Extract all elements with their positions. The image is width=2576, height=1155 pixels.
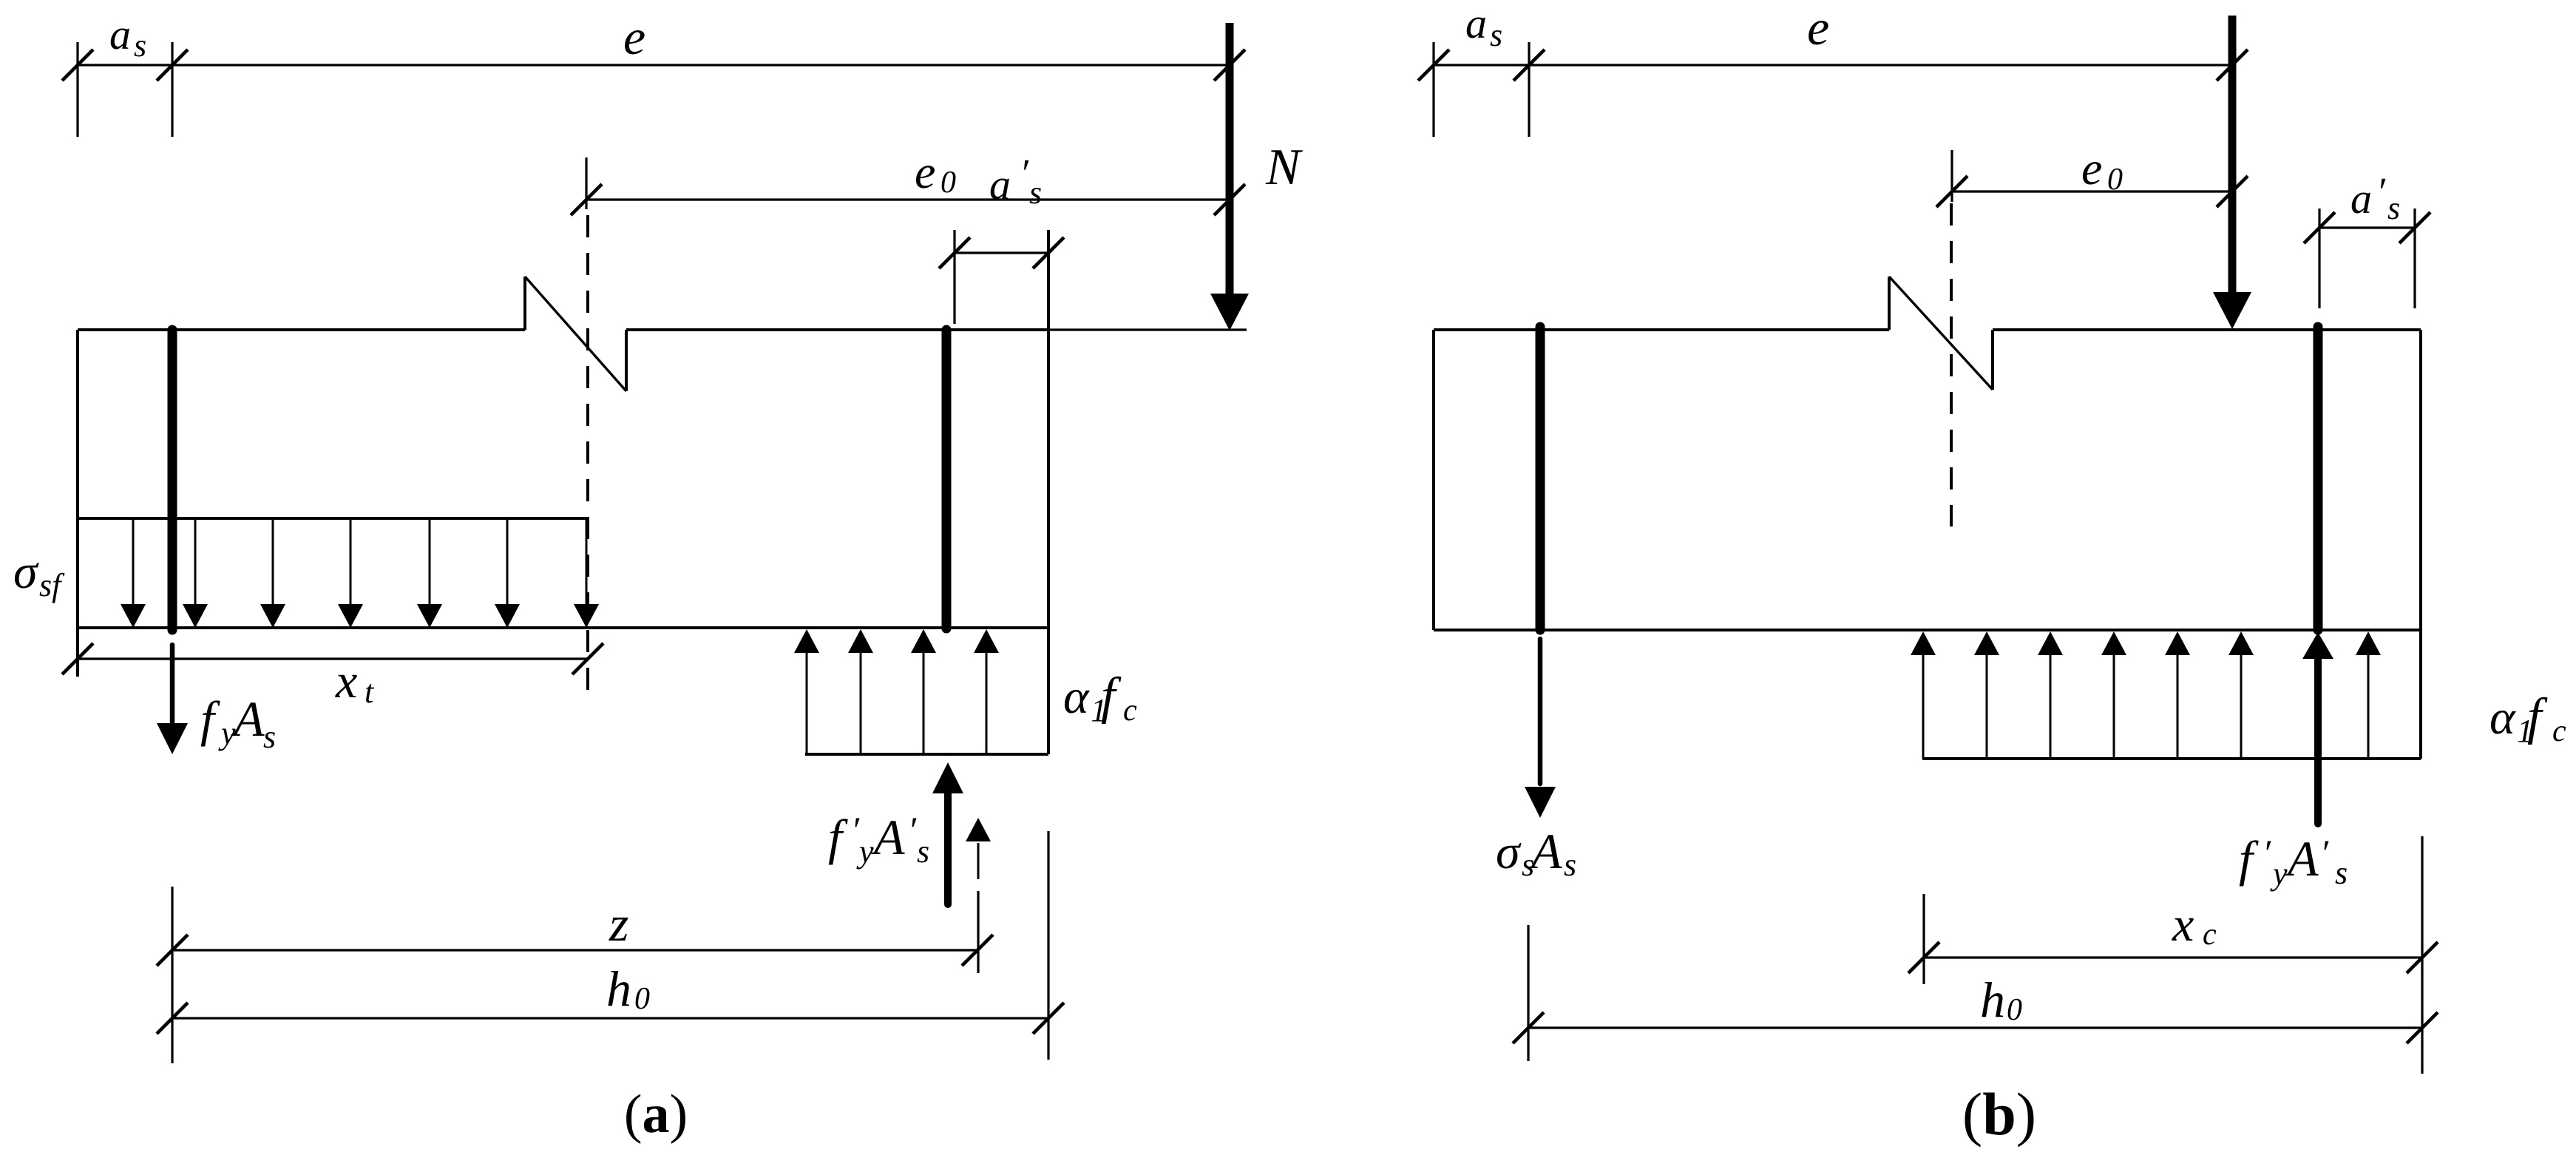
svg-text:z: z bbox=[609, 895, 628, 952]
svg-text:c: c bbox=[2552, 714, 2566, 748]
svg-text:σ: σ bbox=[1496, 825, 1522, 879]
svg-text:h: h bbox=[1980, 972, 2005, 1028]
svg-text:N: N bbox=[1265, 139, 1303, 196]
svg-text:s: s bbox=[1029, 175, 1042, 211]
svg-text:(b): (b) bbox=[1962, 1080, 2036, 1148]
svg-text:s: s bbox=[263, 719, 276, 755]
svg-text:s: s bbox=[1490, 17, 1502, 53]
svg-text:s: s bbox=[2335, 855, 2348, 891]
svg-text:c: c bbox=[1123, 694, 1137, 728]
svg-text:e: e bbox=[623, 9, 645, 65]
svg-text:′: ′ bbox=[2320, 832, 2329, 873]
svg-text:A: A bbox=[1528, 823, 1562, 879]
svg-text:s: s bbox=[1564, 847, 1576, 883]
svg-text:a: a bbox=[1465, 0, 1487, 47]
svg-text:0: 0 bbox=[2107, 163, 2123, 197]
svg-text:′: ′ bbox=[1020, 151, 1029, 195]
svg-text:′: ′ bbox=[2263, 832, 2271, 873]
svg-text:a: a bbox=[989, 160, 1011, 209]
svg-text:a: a bbox=[109, 10, 131, 58]
svg-text:c: c bbox=[2203, 918, 2217, 952]
svg-text:t: t bbox=[365, 674, 375, 710]
svg-text:σ: σ bbox=[13, 545, 39, 599]
svg-text:0: 0 bbox=[634, 982, 650, 1016]
svg-text:(a): (a) bbox=[624, 1084, 688, 1145]
svg-text:0: 0 bbox=[2007, 993, 2022, 1027]
svg-text:s: s bbox=[134, 27, 146, 64]
svg-text:a: a bbox=[2350, 175, 2372, 223]
svg-text:s: s bbox=[2387, 190, 2400, 226]
svg-text:e: e bbox=[915, 146, 935, 198]
svg-text:α: α bbox=[2489, 691, 2516, 745]
svg-text:A: A bbox=[871, 809, 905, 865]
svg-text:y: y bbox=[856, 833, 874, 870]
svg-text:A: A bbox=[2285, 830, 2319, 887]
svg-text:0: 0 bbox=[940, 166, 956, 200]
svg-text:′: ′ bbox=[908, 809, 917, 850]
svg-text:A: A bbox=[231, 691, 265, 747]
svg-text:y: y bbox=[2270, 856, 2288, 892]
svg-text:x: x bbox=[2172, 898, 2194, 952]
svg-text:s: s bbox=[917, 833, 929, 870]
svg-text:x: x bbox=[335, 654, 357, 708]
svg-text:e: e bbox=[2081, 142, 2102, 194]
svg-text:h: h bbox=[606, 961, 631, 1017]
svg-text:α: α bbox=[1063, 670, 1090, 724]
svg-text:′: ′ bbox=[2376, 169, 2386, 214]
svg-text:e: e bbox=[1807, 0, 1829, 55]
